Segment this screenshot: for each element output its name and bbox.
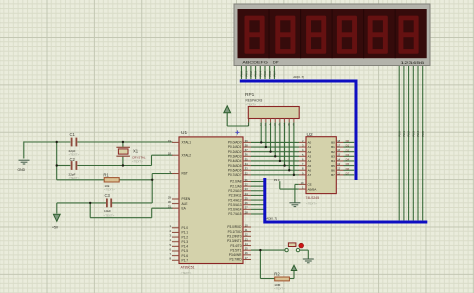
- svg-text:25: 25: [245, 196, 249, 200]
- svg-text:74LS245: 74LS245: [306, 196, 320, 200]
- svg-text:P0.3: P0.3: [254, 71, 258, 77]
- svg-text:B5: B5: [331, 164, 335, 168]
- svg-text:C1: C1: [70, 132, 76, 137]
- svg-text:D1: D1: [346, 144, 350, 148]
- svg-text:D5: D5: [346, 162, 350, 166]
- svg-text:<TEXT>: <TEXT>: [274, 287, 285, 291]
- svg-text:P2.4: P2.4: [416, 131, 420, 137]
- svg-text:<TEXT>: <TEXT>: [132, 159, 143, 163]
- svg-text:P3.1/TXD: P3.1/TXD: [228, 230, 243, 234]
- svg-text:P0.1: P0.1: [244, 71, 248, 77]
- svg-text:P0.2: P0.2: [249, 71, 253, 77]
- svg-text:<TEXT>: <TEXT>: [181, 271, 192, 275]
- svg-text:D7: D7: [346, 171, 350, 175]
- svg-text:31: 31: [168, 205, 172, 209]
- svg-text:ABCDEFG: ABCDEFG: [242, 61, 268, 65]
- svg-text:10uF: 10uF: [104, 209, 111, 213]
- svg-text:A0: A0: [308, 141, 312, 145]
- svg-text:P0.6/AD6: P0.6/AD6: [228, 168, 242, 172]
- svg-text:P2.7/A15: P2.7/A15: [228, 212, 241, 216]
- svg-text:P2.3/A11: P2.3/A11: [229, 194, 242, 198]
- svg-text:P0.6: P0.6: [268, 71, 272, 77]
- svg-text:P0.4/AD4: P0.4/AD4: [228, 159, 242, 163]
- svg-text:21: 21: [245, 178, 249, 182]
- svg-text:P2.2: P2.2: [407, 131, 411, 137]
- svg-text:XTAL2: XTAL2: [182, 153, 192, 157]
- svg-text:P1.3: P1.3: [182, 240, 189, 244]
- svg-text:<TEXT>: <TEXT>: [306, 201, 317, 205]
- svg-text:P2.5/A13: P2.5/A13: [228, 203, 241, 207]
- svg-text:12: 12: [245, 233, 249, 237]
- svg-text:DP: DP: [273, 61, 280, 65]
- svg-text:P3.7/RD: P3.7/RD: [229, 258, 242, 262]
- svg-text:R2: R2: [274, 272, 280, 277]
- svg-text:P0.7: P0.7: [273, 71, 277, 77]
- svg-text:10: 10: [245, 223, 249, 227]
- svg-text:GND: GND: [18, 168, 26, 172]
- svg-text:PSEN: PSEN: [182, 197, 191, 201]
- svg-text:B0: B0: [331, 141, 335, 145]
- svg-text:A1: A1: [308, 145, 312, 149]
- svg-text:D3: D3: [346, 153, 350, 157]
- svg-text:P3.5/T1: P3.5/T1: [230, 248, 241, 252]
- svg-text:38: 38: [245, 143, 249, 147]
- svg-text:B4: B4: [331, 159, 335, 163]
- svg-text:P2.0: P2.0: [274, 178, 280, 182]
- svg-text:RST: RST: [182, 172, 188, 176]
- svg-text:C3: C3: [105, 193, 111, 198]
- svg-text:B6: B6: [331, 168, 335, 172]
- svg-text:U2: U2: [307, 132, 313, 138]
- svg-text:P0.1/AD1: P0.1/AD1: [228, 145, 242, 149]
- svg-text:<TEXT>: <TEXT>: [246, 103, 257, 107]
- svg-text:P0.4: P0.4: [258, 71, 262, 77]
- svg-text:A3: A3: [308, 155, 312, 159]
- svg-text:P3.2/INT0: P3.2/INT0: [227, 234, 242, 238]
- svg-text:16: 16: [245, 251, 249, 255]
- svg-text:AD[0..7]: AD[0..7]: [293, 75, 304, 79]
- svg-text:22: 22: [245, 183, 249, 187]
- svg-text:U1: U1: [181, 130, 187, 136]
- svg-text:P2.0/A8: P2.0/A8: [230, 180, 242, 184]
- svg-text:CE: CE: [308, 183, 312, 187]
- svg-text:<TEXT>: <TEXT>: [104, 214, 115, 218]
- svg-text:27: 27: [245, 206, 249, 210]
- svg-text:A2: A2: [308, 150, 312, 154]
- svg-text:36: 36: [245, 153, 249, 157]
- svg-text:ALE: ALE: [182, 202, 188, 206]
- svg-text:P1.0: P1.0: [182, 226, 189, 230]
- svg-text:32: 32: [245, 171, 249, 175]
- svg-text:P2.1: P2.1: [402, 131, 406, 137]
- svg-text:30: 30: [168, 200, 172, 204]
- svg-text:123456: 123456: [400, 61, 424, 65]
- svg-text:24: 24: [245, 192, 249, 196]
- svg-text:C2: C2: [70, 157, 76, 162]
- svg-text:P0.3/AD3: P0.3/AD3: [228, 155, 242, 159]
- svg-text:14: 14: [245, 242, 249, 246]
- svg-text:P2.5: P2.5: [421, 131, 425, 137]
- svg-text:15: 15: [245, 247, 249, 251]
- svg-text:P2.6/A14: P2.6/A14: [228, 208, 241, 212]
- svg-text:18: 18: [168, 152, 172, 156]
- svg-text:P0.5/AD5: P0.5/AD5: [228, 164, 242, 168]
- svg-text:13: 13: [245, 237, 249, 241]
- svg-text:XTAL1: XTAL1: [182, 141, 192, 145]
- svg-text:<TEXT>: <TEXT>: [69, 153, 80, 157]
- svg-text:D0: D0: [346, 139, 350, 143]
- svg-text:P1.2: P1.2: [182, 235, 189, 239]
- svg-text:P2.3: P2.3: [411, 131, 415, 137]
- svg-text:P1.6: P1.6: [182, 254, 189, 258]
- svg-text:<TEXT>: <TEXT>: [69, 176, 80, 180]
- svg-text:A7: A7: [308, 173, 312, 177]
- svg-text:P3.0/RXD: P3.0/RXD: [227, 225, 242, 229]
- svg-text:D6: D6: [346, 167, 350, 171]
- svg-text:37: 37: [245, 148, 249, 152]
- svg-text:AD[0..7]: AD[0..7]: [266, 216, 277, 220]
- svg-text:RP1: RP1: [245, 92, 255, 98]
- svg-text:P0.2/AD2: P0.2/AD2: [228, 150, 242, 154]
- svg-text:P0.7/AD7: P0.7/AD7: [228, 173, 242, 177]
- svg-text:AT89C51: AT89C51: [181, 266, 195, 270]
- svg-text:R1: R1: [103, 172, 109, 177]
- svg-text:P3.3/INT1: P3.3/INT1: [227, 239, 242, 243]
- svg-text:<TEXT>: <TEXT>: [104, 187, 115, 191]
- svg-text:11: 11: [245, 228, 248, 232]
- svg-text:B2: B2: [331, 150, 335, 154]
- svg-text:D2: D2: [346, 148, 350, 152]
- svg-text:29: 29: [168, 195, 172, 199]
- svg-text:P2.4/A12: P2.4/A12: [228, 198, 241, 202]
- svg-text:P2.0: P2.0: [397, 131, 401, 137]
- svg-text:P3.6/WR: P3.6/WR: [229, 253, 242, 257]
- svg-text:28: 28: [245, 210, 249, 214]
- svg-text:A4: A4: [308, 159, 312, 163]
- svg-text:P1.7: P1.7: [182, 258, 189, 262]
- svg-text:B3: B3: [331, 155, 335, 159]
- svg-text:P1.4: P1.4: [182, 245, 189, 249]
- svg-text:19: 19: [168, 139, 172, 143]
- svg-text:39: 39: [245, 139, 249, 143]
- svg-text:33: 33: [245, 167, 249, 171]
- svg-text:P1.5: P1.5: [182, 249, 189, 253]
- svg-text:P0.5: P0.5: [263, 71, 267, 77]
- svg-text:A5: A5: [308, 164, 312, 168]
- svg-text:17: 17: [245, 256, 249, 260]
- svg-text:P0.0: P0.0: [240, 71, 244, 77]
- svg-text:X1: X1: [133, 148, 139, 153]
- svg-text:P2.2/A10: P2.2/A10: [228, 189, 241, 193]
- svg-text:AB/BA: AB/BA: [308, 187, 317, 191]
- svg-text:P3.4/T0: P3.4/T0: [230, 244, 241, 248]
- svg-text:P0.0/AD0: P0.0/AD0: [228, 141, 242, 145]
- svg-text:23: 23: [245, 187, 249, 191]
- svg-text:B7: B7: [331, 173, 335, 177]
- svg-text:B1: B1: [331, 145, 335, 149]
- svg-text:+5V: +5V: [52, 226, 59, 230]
- svg-text:26: 26: [245, 201, 249, 205]
- svg-text:P1.1: P1.1: [182, 231, 189, 235]
- svg-text:35: 35: [245, 157, 249, 161]
- svg-text:34: 34: [245, 162, 249, 166]
- svg-text:A6: A6: [308, 168, 312, 172]
- svg-text:D4: D4: [346, 158, 350, 162]
- svg-text:P2.1/A9: P2.1/A9: [230, 184, 242, 188]
